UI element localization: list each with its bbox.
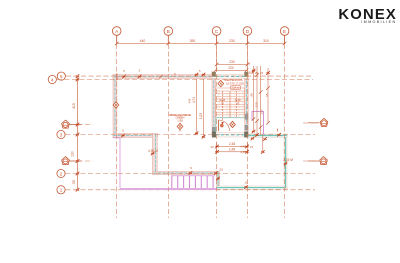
svg-text:9x18: 9x18: [235, 98, 241, 102]
svg-text:390: 390: [190, 39, 196, 43]
svg-text:25: 25: [255, 71, 259, 75]
svg-text:120: 120: [254, 102, 258, 107]
svg-text:230: 230: [229, 39, 235, 43]
svg-text:2,15 M: 2,15 M: [283, 158, 293, 162]
svg-text:440: 440: [140, 39, 146, 43]
svg-text:B: B: [167, 29, 170, 34]
svg-text:130: 130: [71, 151, 75, 157]
svg-text:5: 5: [199, 69, 201, 73]
svg-text:15: 15: [244, 181, 248, 185]
svg-text:1: 1: [60, 188, 63, 193]
svg-text:5: 5: [122, 129, 124, 133]
svg-text:20: 20: [210, 145, 214, 149]
svg-text:4,74: 4,74: [192, 97, 196, 103]
svg-text:2,48: 2,48: [229, 142, 235, 146]
svg-text:90: 90: [249, 93, 253, 97]
svg-text:415: 415: [72, 103, 76, 109]
svg-text:5: 5: [60, 74, 63, 79]
svg-text:3: 3: [60, 132, 63, 137]
svg-text:25: 25: [236, 101, 239, 105]
svg-text:5: 5: [123, 69, 125, 73]
svg-text:310: 310: [263, 39, 269, 43]
svg-text:E: E: [283, 29, 286, 34]
svg-text:2: 2: [60, 171, 63, 176]
svg-text:445: 445: [188, 98, 192, 103]
svg-text:4,48: 4,48: [240, 145, 246, 149]
svg-text:5: 5: [190, 166, 192, 170]
svg-text:5: 5: [139, 69, 141, 73]
svg-text:4,05: 4,05: [240, 150, 246, 154]
svg-text:20: 20: [219, 168, 223, 172]
svg-text:220: 220: [228, 66, 234, 70]
svg-text:IMMOBILIEN: IMMOBILIEN: [361, 20, 396, 24]
svg-text:15: 15: [250, 145, 254, 149]
svg-text:15: 15: [247, 62, 251, 66]
svg-text:55: 55: [265, 93, 269, 97]
svg-text:55: 55: [72, 180, 76, 184]
svg-text:105: 105: [259, 109, 263, 114]
svg-text:15: 15: [260, 71, 264, 75]
svg-text:4,50 M: 4,50 M: [148, 149, 158, 153]
svg-text:1,05: 1,05: [199, 113, 203, 119]
svg-text:4: 4: [51, 77, 54, 82]
svg-text:18 STG 17,2/25: 18 STG 17,2/25: [226, 82, 244, 85]
svg-text:2,48: 2,48: [229, 148, 235, 152]
svg-text:230: 230: [229, 60, 235, 64]
